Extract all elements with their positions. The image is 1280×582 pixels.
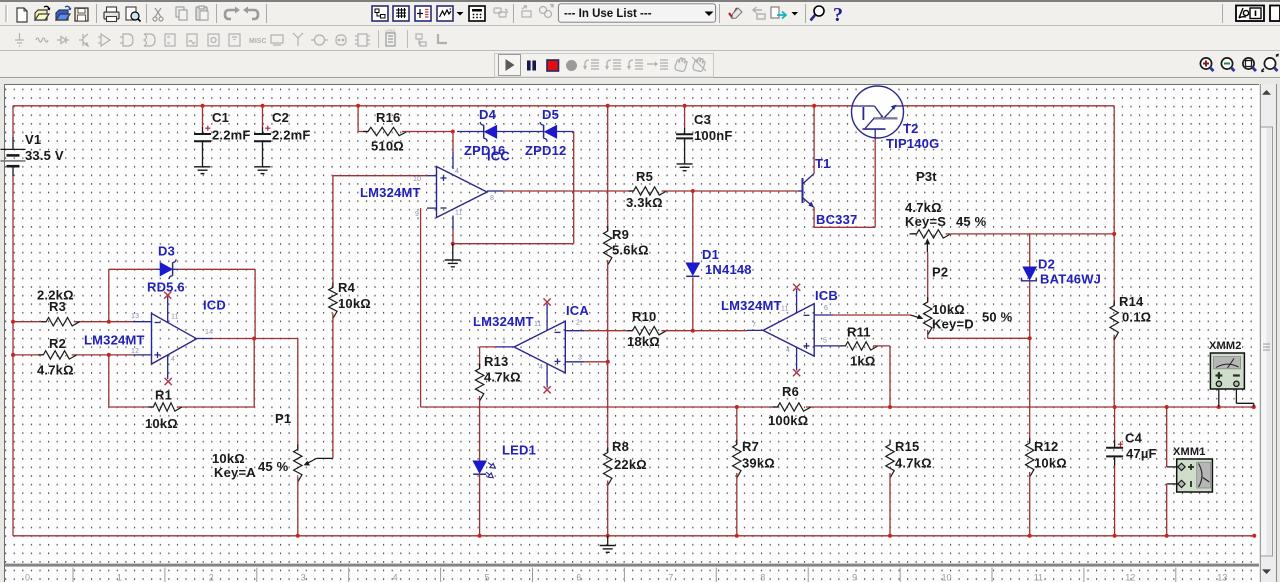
wire R1 feedback (109, 339, 254, 408)
junction R2 node (107, 353, 111, 357)
junction D4 node (451, 130, 455, 134)
svg-text:R9: R9 (612, 227, 629, 242)
svg-text:1kΩ: 1kΩ (850, 354, 875, 369)
wire R13 to LED1 (479, 396, 481, 461)
svg-text:12: 12 (1125, 573, 1135, 582)
svg-text:45 %: 45 % (258, 459, 289, 474)
svg-text:100kΩ: 100kΩ (768, 413, 808, 428)
junction XMM2 node (1217, 405, 1221, 409)
wire left rail lower (V1 bottom) (12, 166, 14, 536)
svg-text:2.2kΩ: 2.2kΩ (37, 288, 74, 303)
potentiometer P3t (912, 230, 951, 238)
junction R3 node (107, 320, 111, 324)
svg-text:R13: R13 (484, 354, 508, 369)
button record (disabled) (566, 60, 577, 71)
resistor R3 (41, 318, 79, 326)
icon hierarchical block (385, 29, 395, 47)
combobox in-use-list (559, 4, 716, 22)
battery V1 (1, 149, 26, 166)
svg-text:TIP140G: TIP140G (886, 136, 939, 151)
svg-text:R7: R7 (742, 439, 759, 454)
button remove breakpoints (disabled) (692, 57, 706, 72)
junction ICC pin11 node (451, 242, 455, 246)
label R2 (37, 336, 74, 378)
svg-text:1: 1 (117, 573, 122, 582)
svg-text:T2: T2 (903, 121, 919, 136)
wire R7 bottom (736, 473, 738, 536)
ERC marker ICA bottom (544, 386, 551, 393)
svg-text:R12: R12 (1034, 439, 1058, 454)
op-amp ICA (496, 304, 584, 388)
label D2 (1038, 257, 1101, 287)
wire left rail upper (V1 top) (12, 106, 14, 150)
icon ERC check (729, 8, 742, 19)
svg-text:14: 14 (205, 329, 213, 336)
junction XMM1 rail (1165, 534, 1169, 538)
label R8 (612, 439, 647, 472)
svg-text:11: 11 (781, 306, 789, 313)
separator (719, 4, 721, 23)
label LED1 (502, 443, 536, 458)
svg-text:R5: R5 (636, 169, 653, 184)
svg-text:100nF: 100nF (694, 128, 733, 143)
icon place TTL (120, 34, 133, 46)
label R10 (627, 309, 660, 349)
separator (805, 4, 807, 23)
diode D5 (540, 122, 557, 142)
wire D3 loop left (109, 269, 156, 321)
svg-text:Key=A: Key=A (214, 465, 256, 480)
wire R9 to R8 (607, 260, 609, 453)
junction C4 rail (1113, 534, 1117, 538)
junction R15 rail (888, 534, 892, 538)
wire XMM1 bottom lead (1167, 484, 1179, 536)
ground C3 (677, 164, 693, 171)
svg-text:12: 12 (131, 348, 139, 355)
toolbar grip (6, 5, 8, 22)
svg-text:4: 4 (539, 364, 543, 371)
wire R15 bottom (889, 473, 891, 536)
button run to cursor (647, 60, 668, 69)
label R16 (371, 110, 404, 154)
icon place advanced peripherals (271, 35, 283, 45)
svg-text:D1: D1 (702, 247, 719, 262)
resistor R16 (363, 127, 407, 135)
sheet border zone ticks and numbers (25, 568, 1227, 582)
label D4 (479, 107, 497, 122)
label R12 (1034, 439, 1067, 471)
label RD5.6 (147, 280, 185, 295)
junction LED1 rail (478, 534, 482, 538)
button pause at next (disabled) (675, 58, 687, 72)
svg-text:4: 4 (393, 573, 398, 582)
junction R6 right (888, 405, 892, 409)
resistor R6 (773, 403, 812, 411)
wire zener loop bottom (453, 243, 574, 245)
icon place diode (57, 37, 69, 44)
icon simulation switch (1236, 6, 1264, 22)
icon place source (15, 33, 24, 46)
icon find (811, 6, 825, 21)
icon new file (17, 8, 27, 22)
icon paste (196, 6, 208, 20)
separator (407, 30, 409, 48)
svg-text:11: 11 (534, 321, 542, 328)
svg-text:R16: R16 (376, 110, 400, 125)
svg-text:C2: C2 (272, 110, 289, 125)
label P3t (905, 169, 987, 229)
svg-text:2: 2 (576, 320, 580, 327)
junction R16 rail (356, 104, 360, 108)
junction D1 bottom (691, 329, 695, 333)
label T2 (903, 121, 919, 136)
ground C2 (255, 167, 271, 174)
label ICB pins (752, 305, 828, 354)
button run (499, 55, 521, 76)
icon place basic (36, 38, 48, 42)
label R4 (338, 280, 371, 311)
label XMM2 (1209, 340, 1242, 352)
label ICC pins (413, 168, 494, 218)
svg-text:8: 8 (760, 573, 765, 582)
svg-text:1: 1 (502, 338, 506, 345)
svg-text:45 %: 45 % (956, 214, 987, 229)
wire ICA minus row (584, 330, 633, 332)
button stop (547, 60, 559, 71)
resistor R13 (475, 364, 483, 402)
resistor R4 (329, 283, 337, 319)
svg-text:P2: P2 (932, 265, 948, 280)
label ICA pins (502, 320, 582, 372)
svg-text:510Ω: 510Ω (371, 139, 404, 154)
svg-text:LM324MT: LM324MT (360, 185, 421, 200)
wire bottom ground rail (13, 535, 1254, 537)
svg-text:4: 4 (786, 347, 790, 354)
svg-text:0.1Ω: 0.1Ω (1122, 310, 1151, 325)
label C1 (212, 110, 251, 143)
svg-text:4.7kΩ: 4.7kΩ (484, 370, 521, 385)
wire ICA plus (584, 361, 608, 363)
svg-text:P1: P1 (275, 411, 291, 426)
wire T1 emitter (814, 138, 875, 227)
svg-text:10kΩ: 10kΩ (212, 451, 245, 466)
svg-text:2.2mF: 2.2mF (272, 128, 311, 143)
wire P2 bottom (928, 330, 1030, 338)
wire P3t left lead (910, 233, 917, 235)
svg-text:22kΩ: 22kΩ (614, 457, 647, 472)
button step into (583, 60, 599, 70)
svg-text:C4: C4 (1125, 431, 1143, 446)
svg-text:ICD: ICD (203, 298, 226, 313)
svg-text:ICB: ICB (815, 288, 838, 303)
icon open recent (56, 6, 72, 20)
label P1 (212, 411, 291, 480)
svg-text:R4: R4 (338, 280, 356, 295)
label ICB (815, 288, 838, 303)
icon postprocessor (469, 6, 485, 21)
separator (146, 4, 148, 23)
svg-text:10: 10 (413, 176, 421, 183)
P2 wiper arrow (833, 314, 923, 319)
svg-text:10kΩ: 10kΩ (1034, 456, 1067, 471)
svg-text:2: 2 (209, 573, 214, 582)
svg-text:18kΩ: 18kΩ (627, 334, 660, 349)
wire ICC -input feedback (420, 208, 422, 407)
icon place analog (98, 34, 110, 46)
icon transfer (disabled) (540, 5, 554, 18)
svg-text:BAT46WJ: BAT46WJ (1040, 272, 1101, 287)
wire D1 top lead (692, 191, 694, 331)
svg-text:V1: V1 (25, 132, 41, 147)
resistor R5 (629, 187, 667, 195)
wire R12 bottom (1029, 472, 1031, 536)
label ICC (487, 149, 510, 164)
label ZPD16 (464, 143, 505, 158)
wire ICD out to P1 (297, 339, 299, 450)
svg-text:11: 11 (1034, 573, 1043, 582)
icon partial right (1270, 6, 1280, 22)
label R13 (484, 354, 521, 385)
svg-text:2.2mF: 2.2mF (212, 128, 251, 143)
svg-text:P3t: P3t (916, 169, 937, 184)
icon place electromechanical (311, 35, 328, 45)
icon back annotate (disabled) (753, 7, 765, 19)
wire R16 to D4 node (402, 132, 453, 244)
junction R14 C4 node (1113, 405, 1117, 409)
separator (216, 4, 218, 23)
svg-text:5: 5 (823, 338, 827, 345)
svg-text:8: 8 (490, 195, 494, 202)
resistor R15 (886, 440, 894, 479)
label R6 (768, 384, 808, 428)
svg-text:R1: R1 (155, 388, 172, 403)
label D3 (158, 244, 175, 259)
label ICD pins (131, 313, 213, 363)
wire D3 loop right (178, 269, 255, 338)
svg-text:5.6kΩ: 5.6kΩ (612, 243, 649, 258)
icon place RF (293, 33, 303, 46)
svg-text:Key=S: Key=S (905, 214, 946, 229)
svg-text:0: 0 (25, 573, 30, 582)
wire XMM1 top lead (1167, 407, 1179, 467)
svg-text:7: 7 (668, 573, 673, 582)
potentiometer P2 (924, 297, 932, 335)
junction R3 left rail (11, 320, 15, 324)
diode D1 (686, 263, 699, 276)
svg-text:C1: C1 (212, 110, 229, 125)
button step out (627, 60, 643, 70)
resistor R9 (604, 226, 612, 265)
potentiometer P1 (294, 444, 302, 482)
svg-text:10kΩ: 10kΩ (145, 416, 178, 431)
icon zoom fit (1261, 54, 1279, 73)
wire C1 drop (202, 106, 204, 167)
svg-text:ZPD12: ZPD12 (525, 143, 566, 158)
transistor T2 (852, 86, 904, 138)
label R11 (847, 325, 875, 369)
label ICD (203, 298, 226, 313)
label LM324MT ICC (360, 185, 421, 200)
capacitor C2 (254, 126, 271, 142)
capacitor C1 (194, 126, 211, 142)
svg-text:LM324MT: LM324MT (84, 333, 145, 348)
op-amp ICC (427, 152, 503, 230)
svg-text:LED1: LED1 (502, 443, 536, 458)
diode D2 (1022, 267, 1037, 281)
icon grapher (437, 6, 453, 21)
svg-text:XMM2: XMM2 (1209, 340, 1242, 352)
wire P1 bottom (297, 477, 299, 536)
separator (513, 4, 515, 23)
wire ICC out (503, 190, 634, 192)
wire XMM2 leads (1219, 389, 1254, 406)
label R15 (895, 439, 932, 471)
svg-text:6: 6 (824, 305, 828, 312)
label C2 (272, 110, 311, 143)
ground bottom center (600, 536, 616, 553)
svg-text:R11: R11 (847, 325, 871, 340)
sheet bottom border bar (5, 564, 1259, 567)
wire R5 to T1 base (662, 190, 798, 192)
svg-text:D3: D3 (158, 244, 175, 259)
resistor R1 (148, 403, 182, 411)
svg-text:13: 13 (131, 313, 139, 320)
svg-text:R14: R14 (1119, 294, 1144, 309)
svg-text:39kΩ: 39kΩ (742, 456, 775, 471)
node feedback row end (1252, 405, 1256, 409)
label T1 (815, 156, 831, 171)
wire R7 top (736, 407, 738, 445)
junction P3t right rail (1112, 232, 1116, 236)
vertical scrollbar (1260, 84, 1275, 582)
separator (96, 4, 98, 23)
icon place misc (249, 38, 267, 45)
wire top supply rail (13, 105, 1114, 107)
label R7 (742, 439, 775, 471)
label V1 (25, 132, 64, 163)
wire D2 top (1029, 234, 1031, 267)
icon bus2 (438, 34, 447, 43)
resistor R2 (38, 351, 76, 359)
dropdown arrow (792, 12, 799, 16)
ground C1 (195, 167, 211, 174)
junction P1 rail (296, 534, 300, 538)
resistor R10 (628, 327, 667, 335)
capacitor C4 (1106, 442, 1123, 457)
label D5 (542, 107, 559, 122)
icon zoom area (1243, 58, 1256, 71)
svg-text:11: 11 (171, 314, 179, 321)
icon place transistor (79, 34, 88, 46)
icon bus1 (416, 34, 426, 46)
svg-text:47µF: 47µF (1126, 446, 1157, 461)
junction ICD out (252, 337, 256, 341)
label ICA (566, 303, 589, 318)
icon place mixed (187, 34, 197, 46)
svg-text:9: 9 (852, 573, 857, 582)
junction D1 top (691, 189, 695, 193)
separator (1222, 4, 1224, 23)
wire ICC +input row (333, 175, 427, 177)
separator (266, 4, 268, 23)
wire R16 drop (358, 106, 368, 132)
wire right rail (T2 to R14) (1113, 106, 1115, 306)
junction P2-D2 (1028, 336, 1032, 340)
svg-text:Key=D: Key=D (932, 317, 974, 332)
svg-text:D5: D5 (542, 107, 559, 122)
wire D4 D5 link (457, 131, 574, 133)
diode D4 (480, 122, 496, 142)
wire R8 bottom (607, 481, 609, 536)
op-amp ICB (747, 289, 842, 371)
wire ICD out (212, 338, 298, 340)
svg-text:R2: R2 (49, 336, 66, 351)
icon forward annotate (771, 7, 786, 19)
separator (378, 30, 380, 48)
wire R4 bottom to P1 wiper (332, 314, 334, 459)
icon open file (35, 6, 51, 20)
junction T1 rail (812, 104, 816, 108)
icon zoom in (1200, 58, 1213, 71)
label R1 (145, 388, 178, 432)
label R14 (1119, 294, 1151, 325)
svg-text:R10: R10 (632, 309, 656, 324)
icon print preview (126, 7, 141, 22)
icon undo (225, 7, 240, 20)
label LM324MT ICB (721, 298, 782, 313)
op-amp ICD (133, 297, 212, 380)
wire C4 top (1114, 407, 1116, 536)
wire feedback row (421, 406, 1254, 408)
instrument XMM2 (1210, 353, 1244, 389)
svg-text:50 %: 50 % (982, 310, 1013, 325)
node bottom rail end (1252, 534, 1256, 538)
icon new breadboard (disabled) (522, 6, 531, 18)
resistor R14 (1110, 301, 1118, 340)
svg-text:9: 9 (415, 211, 419, 218)
svg-text:10: 10 (941, 573, 951, 582)
wire R4 top (332, 176, 334, 288)
P1 wiper arrow (304, 458, 333, 465)
P3t wiper arrow (925, 238, 930, 252)
svg-text:4: 4 (171, 356, 175, 363)
svg-text:4.7kΩ: 4.7kΩ (895, 456, 932, 471)
diode D3 (156, 259, 178, 279)
wire P3t wiper to P2 (927, 252, 929, 302)
button step over (605, 60, 621, 70)
svg-text:33.5 V: 33.5 V (25, 148, 64, 163)
svg-text:LM324MT: LM324MT (473, 314, 534, 329)
svg-text:4.7kΩ: 4.7kΩ (37, 363, 74, 378)
icon place indicator (208, 34, 219, 46)
label C4 (1125, 431, 1157, 462)
svg-text:3: 3 (578, 355, 582, 362)
wire zener loop right (573, 132, 575, 244)
wire R14 to R6 row (1113, 335, 1115, 407)
icon spice netlist (415, 6, 431, 21)
icon print (104, 7, 119, 22)
svg-text:RD5.6: RD5.6 (147, 280, 185, 295)
junction R7 rail (735, 534, 739, 538)
icon element edit (disabled) (494, 8, 507, 17)
label P2 (932, 265, 1013, 332)
label R9 (612, 227, 649, 258)
wire C3 drop (684, 106, 686, 164)
ERC marker ICD bottom (165, 378, 172, 385)
resistor R12 (1026, 438, 1034, 477)
label TIP140G (886, 136, 939, 151)
icon zoom out (1221, 58, 1234, 71)
